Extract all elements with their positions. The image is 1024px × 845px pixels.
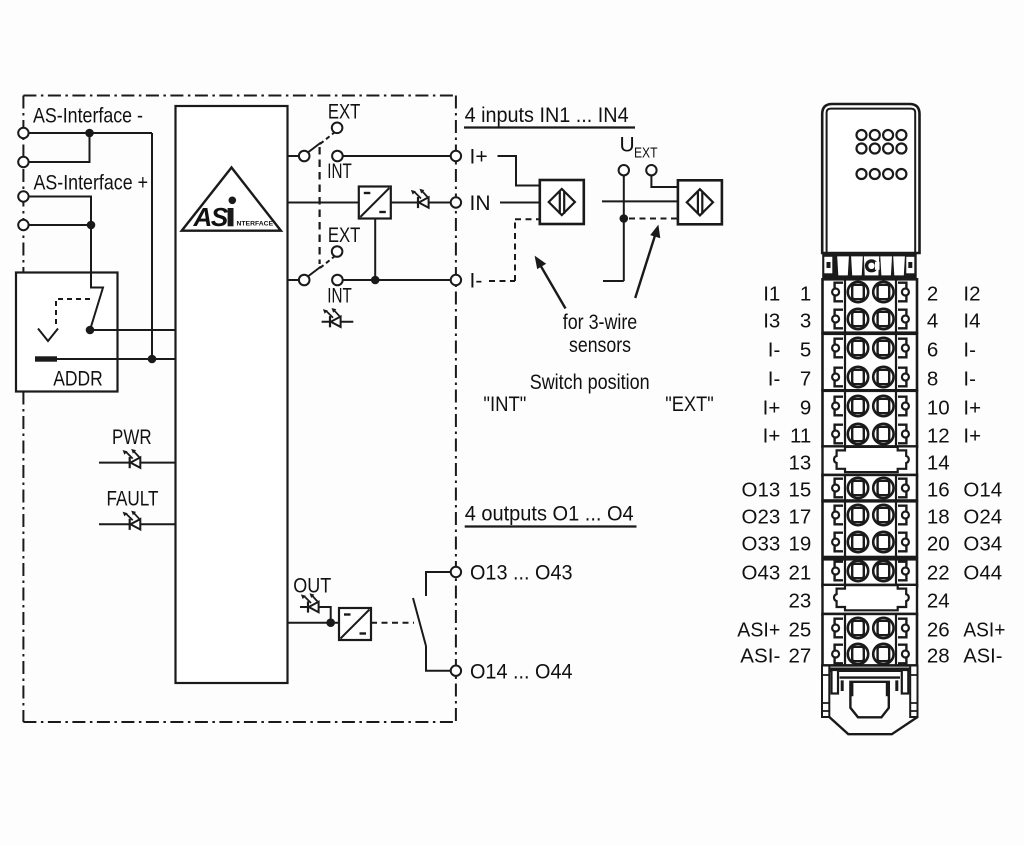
switch S1 blade xyxy=(309,143,322,153)
wire switch S2 INT to terminal I- xyxy=(343,279,451,281)
svg-text:"INT": "INT" xyxy=(483,393,526,416)
svg-text:I2: I2 xyxy=(963,283,980,306)
foot bottom chamfer xyxy=(829,717,917,734)
ADDR box xyxy=(16,273,118,392)
svg-text:EXT: EXT xyxy=(634,146,658,162)
ADDR switch manual actuation arrow xyxy=(38,329,58,342)
wire LED input indicator lead xyxy=(322,321,354,323)
heading underline outputs xyxy=(465,525,637,527)
junction U EXT minus tap xyxy=(620,214,629,223)
terminal contacts pins 17/18 xyxy=(832,505,909,525)
svg-text:I-: I- xyxy=(963,368,976,391)
wire ADDR switch to module xyxy=(90,329,176,331)
junction AS-i minus on ADDR wire xyxy=(148,355,157,364)
svg-text:2: 2 xyxy=(927,283,938,306)
svg-text:18: 18 xyxy=(927,506,950,529)
head status LEDs row 2 xyxy=(857,144,907,154)
svg-text:O13: O13 xyxy=(742,479,781,502)
wire converter U2 to terminal IN xyxy=(391,202,451,204)
wire FAULT LED xyxy=(99,523,176,525)
terminal contacts pins 27/28 xyxy=(832,644,909,664)
svg-text:O14: O14 xyxy=(963,479,1002,502)
svg-text:sensors: sensors xyxy=(569,334,631,357)
unit box 15/16 inner dividers xyxy=(845,475,896,501)
terminal AS-Interface plus 1 xyxy=(18,191,28,201)
heading underline inputs xyxy=(464,126,635,128)
terminal unit box pins 17-20 xyxy=(823,501,918,557)
svg-text:I-: I- xyxy=(470,270,483,293)
svg-text:AS-Interface +: AS-Interface + xyxy=(34,172,149,195)
sensor B2 xyxy=(678,180,722,224)
pin name labels right column xyxy=(963,283,1005,668)
converter U3 output isolator xyxy=(339,608,371,640)
foot top bar xyxy=(829,667,910,672)
terminal O14 xyxy=(451,666,461,676)
LED IN status xyxy=(411,189,429,208)
wire switch S1 INT to terminal I+ xyxy=(343,155,451,157)
switch S2 common contact xyxy=(299,275,310,286)
foot left guide column xyxy=(822,666,829,718)
unit box 1-4 inner dividers xyxy=(845,279,896,332)
foot left latch xyxy=(832,670,839,694)
terminal contacts pins 1/2 xyxy=(832,282,909,302)
svg-text:O34: O34 xyxy=(963,533,1002,556)
pin number labels right column xyxy=(927,283,950,668)
svg-text:INT: INT xyxy=(327,285,352,308)
svg-text:O13 ... O43: O13 ... O43 xyxy=(470,562,573,585)
svg-text:4 inputs IN1 ... IN4: 4 inputs IN1 ... IN4 xyxy=(465,104,629,127)
svg-text:ASI-: ASI- xyxy=(740,645,780,668)
terminal I+ xyxy=(451,151,461,161)
svg-text:15: 15 xyxy=(788,479,811,502)
head status LEDs row 3 xyxy=(857,169,907,179)
svg-text:O24: O24 xyxy=(963,506,1002,529)
svg-text:21: 21 xyxy=(788,562,811,585)
svg-text:9: 9 xyxy=(800,397,811,420)
svg-text:26: 26 xyxy=(927,619,950,642)
terminal contacts pins 5/6 xyxy=(832,338,909,358)
foot right guide column xyxy=(910,666,917,718)
wire I+ to sensor B1 xyxy=(498,156,540,186)
unit box 17-20 inner dividers xyxy=(845,501,896,557)
wire PWR LED xyxy=(99,462,176,464)
svg-text:U: U xyxy=(620,134,635,157)
switch S2 blade dashed extension xyxy=(320,257,334,268)
terminal U EXT minus xyxy=(619,165,629,175)
svg-text:I+: I+ xyxy=(963,425,981,448)
svg-text:O44: O44 xyxy=(963,562,1002,585)
unit box 5-8 inner dividers xyxy=(845,334,896,391)
terminal unit box pins 9-12 xyxy=(823,391,918,447)
switch S2 blade xyxy=(309,267,322,277)
svg-text:Switch position: Switch position xyxy=(530,371,650,394)
svg-text:23: 23 xyxy=(788,590,811,613)
svg-text:11: 11 xyxy=(790,425,811,448)
svg-text:I4: I4 xyxy=(963,310,980,333)
spacer row housing pins 13/14 xyxy=(823,446,918,475)
svg-text:16: 16 xyxy=(927,479,950,502)
dashed actuation link to relay contact xyxy=(371,622,414,624)
svg-text:4: 4 xyxy=(927,310,938,333)
terminal contacts pins 7/8 xyxy=(832,367,909,387)
AS-i logo i stem xyxy=(228,208,234,226)
svg-text:O14 ... O44: O14 ... O44 xyxy=(470,661,573,684)
dashed wire minus to sensor B2 xyxy=(629,218,678,220)
switch S1 common contact xyxy=(299,151,310,162)
dashed gang link between switches xyxy=(319,147,321,264)
svg-text:25: 25 xyxy=(788,619,811,642)
unit box 9-12 inner dividers xyxy=(845,391,896,447)
svg-text:NTERFACE: NTERFACE xyxy=(237,221,274,228)
svg-text:O43: O43 xyxy=(742,562,781,585)
svg-text:AS-Interface -: AS-Interface - xyxy=(33,105,143,128)
svg-text:I-: I- xyxy=(768,339,781,362)
svg-text:ASI+: ASI+ xyxy=(737,619,780,642)
foot keystone right rib xyxy=(887,680,897,696)
svg-text:I+: I+ xyxy=(763,425,781,448)
wire converter U2 to I- rail xyxy=(374,219,376,281)
svg-text:"EXT": "EXT" xyxy=(665,393,714,416)
LED OUT xyxy=(301,593,319,612)
svg-text:ADDR: ADDR xyxy=(53,368,103,391)
svg-text:10: 10 xyxy=(927,397,950,420)
terminal IN xyxy=(451,197,461,207)
junction on AS-Interface minus xyxy=(85,129,94,138)
terminal contacts pins 25/26 xyxy=(832,618,909,638)
foot keystone DIN lock xyxy=(850,682,888,718)
terminal contacts pins 11/12 xyxy=(832,424,909,444)
switch S1 blade dashed extension xyxy=(320,133,334,144)
head status LEDs row 1 xyxy=(857,130,907,140)
annotation arrow left for 3-wire sensors xyxy=(541,266,566,309)
svg-text:13: 13 xyxy=(788,452,811,475)
connector housing head xyxy=(822,104,919,253)
svg-text:17: 17 xyxy=(788,506,811,529)
svg-text:12: 12 xyxy=(927,425,950,448)
terminal unit box pins 25-28 xyxy=(823,614,918,666)
enclosure dash-dot border right xyxy=(455,96,457,723)
svg-text:O23: O23 xyxy=(742,506,781,529)
LED FAULT xyxy=(123,511,141,530)
pin name labels left column xyxy=(737,283,780,668)
converter U2 input isolator xyxy=(359,187,391,219)
svg-text:19: 19 xyxy=(788,533,811,556)
svg-text:AS: AS xyxy=(193,202,229,232)
terminal AS-Interface minus 2 xyxy=(18,157,28,167)
svg-text:4 outputs O1 ... O4: 4 outputs O1 ... O4 xyxy=(465,502,634,525)
svg-text:3: 3 xyxy=(800,310,811,333)
blank spacer plate pins 13/14 xyxy=(834,447,909,472)
terminal U EXT plus xyxy=(646,165,656,175)
unit box 25-28 inner dividers xyxy=(845,614,896,666)
svg-text:I+: I+ xyxy=(963,397,981,420)
terminal contacts pins 15/16 xyxy=(832,478,909,498)
wire module to converter U2 xyxy=(288,202,359,204)
sensor B1 xyxy=(540,180,584,224)
dashed wire I- to sensor B1 xyxy=(489,219,540,281)
ADDR programming contact bar xyxy=(35,356,57,361)
blank spacer plate pins 23/24 xyxy=(834,585,909,610)
svg-text:FAULT: FAULT xyxy=(107,488,159,511)
junction OUT LED tap xyxy=(326,618,335,627)
pin number labels left column xyxy=(788,283,811,668)
svg-text:5: 5 xyxy=(800,339,811,362)
unit box 21/22 inner dividers xyxy=(845,559,896,586)
annotation arrow right head xyxy=(650,225,660,239)
svg-text:OUT: OUT xyxy=(293,575,331,598)
ADDR switch manual actuation dashed link xyxy=(56,299,90,326)
wire U EXT minus rail xyxy=(603,175,624,281)
svg-text:EXT: EXT xyxy=(328,224,361,247)
terminal contacts pins 3/4 xyxy=(832,309,909,329)
svg-text:22: 22 xyxy=(927,562,950,585)
wire ADDR bar to module xyxy=(57,358,176,360)
AS-i logo i dot xyxy=(229,197,237,205)
terminal unit box pins 15/16 xyxy=(823,475,918,501)
svg-text:6: 6 xyxy=(927,339,938,362)
terminal O13 xyxy=(451,567,461,577)
enclosure dash-dot border bottom xyxy=(23,721,456,723)
annotation arrow left head xyxy=(535,256,547,270)
bus connector dark band xyxy=(822,254,917,279)
svg-text:I1: I1 xyxy=(763,283,780,306)
foot keystone left rib xyxy=(842,680,852,696)
wire module to switch S1 xyxy=(288,155,300,157)
terminal contacts pins 19/20 xyxy=(832,532,909,552)
svg-text:PWR: PWR xyxy=(112,426,152,449)
svg-text:IN: IN xyxy=(470,192,491,215)
foot right latch xyxy=(902,670,909,694)
wire IN to sensor B1 xyxy=(500,202,540,204)
switch S2 INT contact xyxy=(332,275,343,286)
spacer row housing pins 23/24 xyxy=(823,585,918,615)
svg-text:ASI-: ASI- xyxy=(963,645,1002,668)
wire AS-Interface minus xyxy=(23,133,152,359)
switch S1 INT contact xyxy=(332,151,343,162)
enclosure dash-dot border top xyxy=(23,95,456,97)
LED input indicator xyxy=(323,308,341,327)
terminal unit box pins 5-8 xyxy=(823,334,918,391)
AS-i logo triangle xyxy=(182,168,281,231)
ADDR switch pivot junction xyxy=(86,326,95,335)
svg-text:INT: INT xyxy=(327,160,352,183)
svg-text:8: 8 xyxy=(927,368,938,391)
ADDR switch xyxy=(90,273,103,331)
foot second bar xyxy=(840,676,901,678)
svg-text:7: 7 xyxy=(800,368,811,391)
enclosure dash-dot border left xyxy=(22,96,24,723)
wire module to switch S2 xyxy=(288,279,300,281)
svg-text:for 3-wire: for 3-wire xyxy=(563,311,638,334)
terminal contacts pins 9/10 xyxy=(832,396,909,416)
wire U EXT plus to sensor B2 xyxy=(651,175,678,187)
svg-text:20: 20 xyxy=(927,533,950,556)
relay contact fixed side O13 xyxy=(426,572,451,596)
terminal unit box pins 21/22 xyxy=(823,559,918,586)
svg-text:I3: I3 xyxy=(763,310,780,333)
svg-text:ASI+: ASI+ xyxy=(963,619,1005,642)
LED PWR xyxy=(123,449,141,468)
terminal unit box pins 1-4 xyxy=(823,279,918,332)
svg-text:EXT: EXT xyxy=(328,100,361,123)
switch S1 EXT contact xyxy=(332,123,343,134)
terminal I- xyxy=(451,275,461,285)
svg-text:27: 27 xyxy=(788,645,811,668)
switch S2 EXT contact xyxy=(332,246,343,257)
relay contact blade xyxy=(413,598,426,646)
terminal AS-Interface plus 2 xyxy=(18,220,28,230)
wire OUT LED lead xyxy=(300,607,331,623)
svg-text:I-: I- xyxy=(768,368,781,391)
svg-text:24: 24 xyxy=(927,590,950,613)
svg-text:1: 1 xyxy=(800,283,811,306)
relay contact pivot side O14 xyxy=(426,646,451,671)
wire module output xyxy=(288,622,340,624)
junction on AS-Interface plus xyxy=(87,221,96,230)
terminal contacts pins 21/22 xyxy=(832,561,909,581)
module U1 main box xyxy=(176,106,288,683)
terminal AS-Interface minus 1 xyxy=(18,128,28,138)
wire IN fragment to sensor B2 xyxy=(602,200,678,202)
svg-text:28: 28 xyxy=(927,645,950,668)
svg-text:14: 14 xyxy=(927,452,950,475)
svg-text:O33: O33 xyxy=(742,533,781,556)
junction converter U2 return xyxy=(371,276,380,285)
annotation arrow right for 3-wire sensors xyxy=(635,236,655,299)
svg-text:I-: I- xyxy=(963,339,976,362)
svg-text:I+: I+ xyxy=(470,146,488,169)
svg-text:I+: I+ xyxy=(763,397,781,420)
wire AS-Interface plus xyxy=(23,197,91,273)
